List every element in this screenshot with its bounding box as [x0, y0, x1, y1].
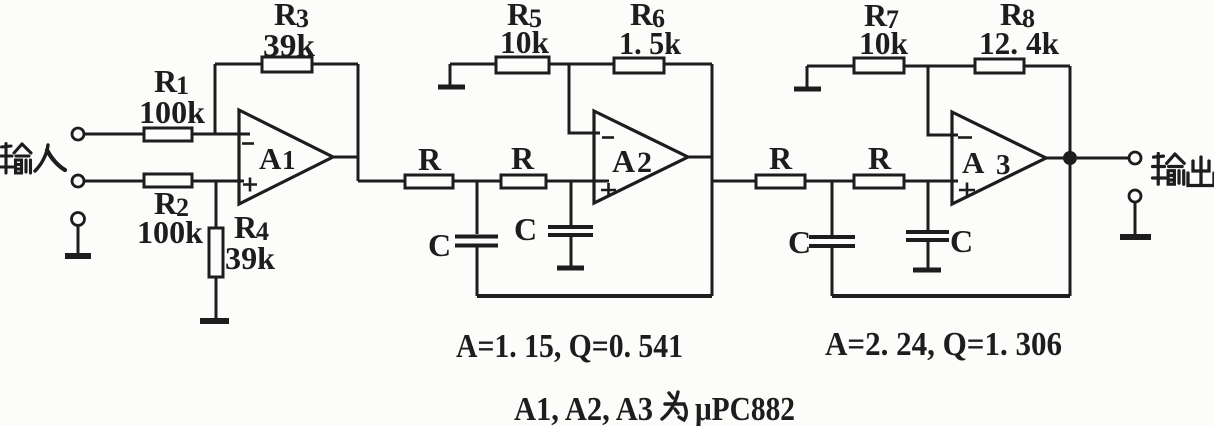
ground stem R7	[806, 66, 809, 87]
svg-text:A: A	[259, 141, 282, 176]
wire IN2 to R2	[84, 180, 144, 183]
ground bar under input	[65, 253, 91, 259]
capacitor C4 plates	[906, 232, 949, 240]
resistor R6	[614, 58, 664, 73]
ground bar under output	[1120, 234, 1151, 240]
capacitor C4 stem	[927, 181, 930, 230]
capacitor C2 to ground	[570, 237, 573, 266]
resistor R7	[854, 58, 904, 73]
svg-text:1: 1	[282, 145, 296, 175]
svg-text:A: A	[962, 145, 985, 180]
output terminal OUT	[1129, 152, 1141, 164]
svg-text:C: C	[428, 227, 451, 263]
ground bar under C4	[913, 268, 941, 273]
resistor Rd	[854, 175, 904, 188]
svg-text:C: C	[950, 223, 973, 259]
wire R8 right	[1024, 65, 1070, 68]
svg-text:C: C	[788, 224, 811, 260]
input terminal IN2	[72, 175, 84, 187]
svg-text:A: A	[612, 143, 635, 179]
resistor R2	[144, 174, 192, 187]
op-amp A2	[594, 111, 688, 203]
svg-text:3: 3	[996, 149, 1011, 181]
wire R4 to ground	[215, 277, 218, 319]
svg-text:100k: 100k	[139, 94, 205, 130]
ground bar under C2	[557, 266, 584, 271]
capacitor C1 stem top	[476, 181, 479, 234]
wire ground terminal	[77, 226, 80, 253]
node minus A1 / vertical to R3	[214, 64, 217, 134]
plus sign A1	[243, 178, 257, 192]
wire A2 output to Rc	[712, 180, 756, 183]
wire A3 output	[1046, 157, 1070, 160]
svg-text:A1, A2, A3: A1, A2, A3	[514, 391, 653, 426]
op-amp A1	[239, 110, 333, 204]
plus sign A3	[959, 183, 975, 198]
svg-text:12. 4k: 12. 4k	[979, 25, 1059, 61]
svg-text:R: R	[418, 141, 442, 177]
wire R5 ground lead	[450, 63, 496, 66]
minus sign A1	[242, 142, 254, 145]
wire R3 right	[312, 63, 358, 66]
ground bar R5	[438, 85, 465, 90]
output ground terminal	[1129, 190, 1141, 202]
capacitor C3 plates	[809, 237, 855, 246]
wire stage3 bottom feedback	[832, 294, 1070, 298]
wire R2 to A1 non-inverting input	[192, 180, 244, 183]
label output 输出	[1153, 154, 1185, 185]
plus sign A2	[601, 183, 616, 197]
svg-text:μPC882: μPC882	[695, 391, 795, 426]
svg-text:2: 2	[637, 146, 652, 179]
ground under R4	[200, 318, 229, 324]
node output junction dot	[1063, 151, 1077, 165]
capacitor C3 stem top	[831, 181, 834, 235]
wire A2 output	[688, 156, 712, 159]
svg-text:R: R	[868, 140, 892, 176]
svg-text:39k: 39k	[225, 240, 275, 276]
capacitor C1 plates	[455, 237, 498, 246]
resistor R4	[209, 228, 223, 277]
op-amp A3	[952, 112, 1046, 204]
wire feedback vertical R3 to A1 output node	[357, 64, 360, 181]
svg-text:100k: 100k	[137, 214, 203, 250]
wire junction to A2 inverting input	[569, 64, 600, 133]
minus sign A2	[602, 136, 614, 139]
resistor R1	[144, 128, 192, 141]
wire to output terminal	[1077, 157, 1129, 160]
svg-text:A=2. 24, Q=1. 306: A=2. 24, Q=1. 306	[825, 326, 1062, 363]
wire output ground	[1134, 202, 1137, 234]
wire A1 output	[333, 156, 358, 159]
wire to R3	[215, 63, 262, 66]
wire junction to A3 inverting input	[928, 66, 958, 135]
capacitor C2 stem	[570, 181, 573, 225]
svg-text:R: R	[511, 140, 535, 176]
wire A2 feedback vertical	[711, 64, 714, 296]
wire R5 to R6	[549, 63, 614, 66]
resistor R5	[496, 57, 549, 73]
wire Rb to A2 non-inverting input	[546, 180, 609, 183]
svg-text:10k: 10k	[859, 25, 908, 61]
input ground terminal	[72, 213, 85, 226]
svg-text:C: C	[514, 211, 537, 247]
resistor R3	[262, 57, 312, 72]
svg-text:39k: 39k	[263, 27, 315, 63]
capacitor C1 stem bottom to feedback	[476, 247, 479, 296]
ground stem R5	[449, 64, 452, 85]
capacitor C2 plates	[548, 227, 593, 235]
wire IN1 to R1	[84, 133, 144, 136]
resistor R8	[975, 59, 1024, 73]
wire stage2 bottom feedback	[477, 294, 712, 298]
wire Rd to A3 non-inverting input	[904, 180, 958, 183]
wire Rc to Rd	[805, 180, 854, 183]
resistor Rb	[501, 175, 546, 188]
svg-text:R: R	[769, 140, 793, 176]
resistor Rc	[756, 175, 805, 188]
wire R6 right	[664, 63, 712, 66]
input terminal IN1	[72, 128, 84, 140]
wire Ra to Rb	[453, 180, 501, 183]
minus sign A3	[958, 136, 972, 139]
wire R1 to A1 inverting input	[192, 133, 250, 136]
wire junction to R4	[215, 181, 218, 228]
label input 输入	[1, 144, 32, 174]
wire A3 feedback vertical	[1069, 66, 1072, 296]
wire A1 output to Ra	[358, 180, 405, 183]
capacitor C4 to ground	[927, 242, 930, 268]
wire R7 ground lead	[807, 65, 854, 68]
svg-text:1. 5k: 1. 5k	[619, 25, 681, 61]
ground bar R7	[794, 87, 821, 92]
wire R7 to R8	[904, 65, 975, 68]
svg-text:A=1. 15, Q=0. 541: A=1. 15, Q=0. 541	[456, 328, 683, 365]
resistor Ra	[405, 175, 453, 188]
svg-text:10k: 10k	[500, 24, 549, 60]
capacitor C3 stem bottom	[831, 248, 834, 296]
